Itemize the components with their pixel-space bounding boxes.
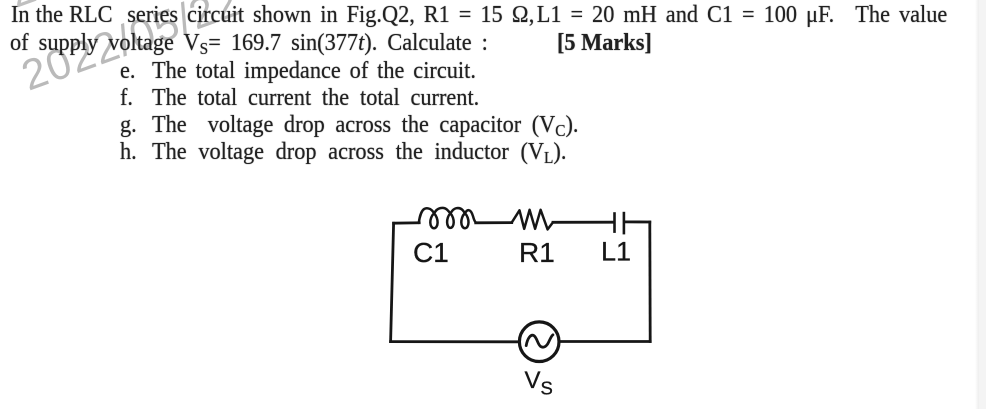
wire: inductor to resistor: [476, 221, 512, 224]
list item g: [120, 113, 137, 137]
wire: resistor to capacitor: [553, 221, 613, 224]
svg-text:C1: C1: [413, 237, 449, 268]
wire: left vertical side: [391, 223, 394, 341]
paragraph line 1: [11, 3, 947, 27]
svg-text:R1: R1: [519, 237, 555, 268]
capacitor left plate (labeled L1): [613, 212, 616, 233]
svg-text:L1: L1: [601, 237, 631, 267]
wire: bottom right segment: [560, 340, 650, 343]
right page edge shading: [975, 0, 979, 409]
paragraph line 2: [10, 31, 488, 55]
list item e: [120, 59, 135, 83]
wire: right vertical side: [648, 222, 651, 342]
marks: [557, 31, 652, 55]
list item h: [120, 140, 137, 164]
list item f: [120, 86, 133, 110]
wire: top-left segment to inductor: [394, 221, 420, 224]
ac source sine wave: [526, 335, 553, 347]
svg-text:VS: VS: [525, 367, 553, 399]
resistor R1 zigzag: [512, 210, 553, 230]
ac source VS circle: [519, 322, 559, 362]
wire: bottom left segment: [391, 340, 519, 343]
inductor coil (labeled C1): [419, 208, 476, 228]
capacitor right plate: [623, 212, 626, 235]
wire: capacitor to top-right corner: [625, 220, 650, 223]
